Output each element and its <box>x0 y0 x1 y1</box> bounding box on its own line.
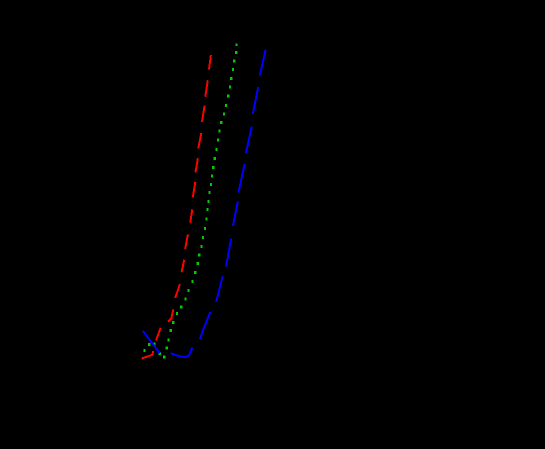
red dashed curve <box>142 55 211 358</box>
blue long-dashed curve <box>143 50 266 358</box>
green dotted curve <box>143 44 237 359</box>
